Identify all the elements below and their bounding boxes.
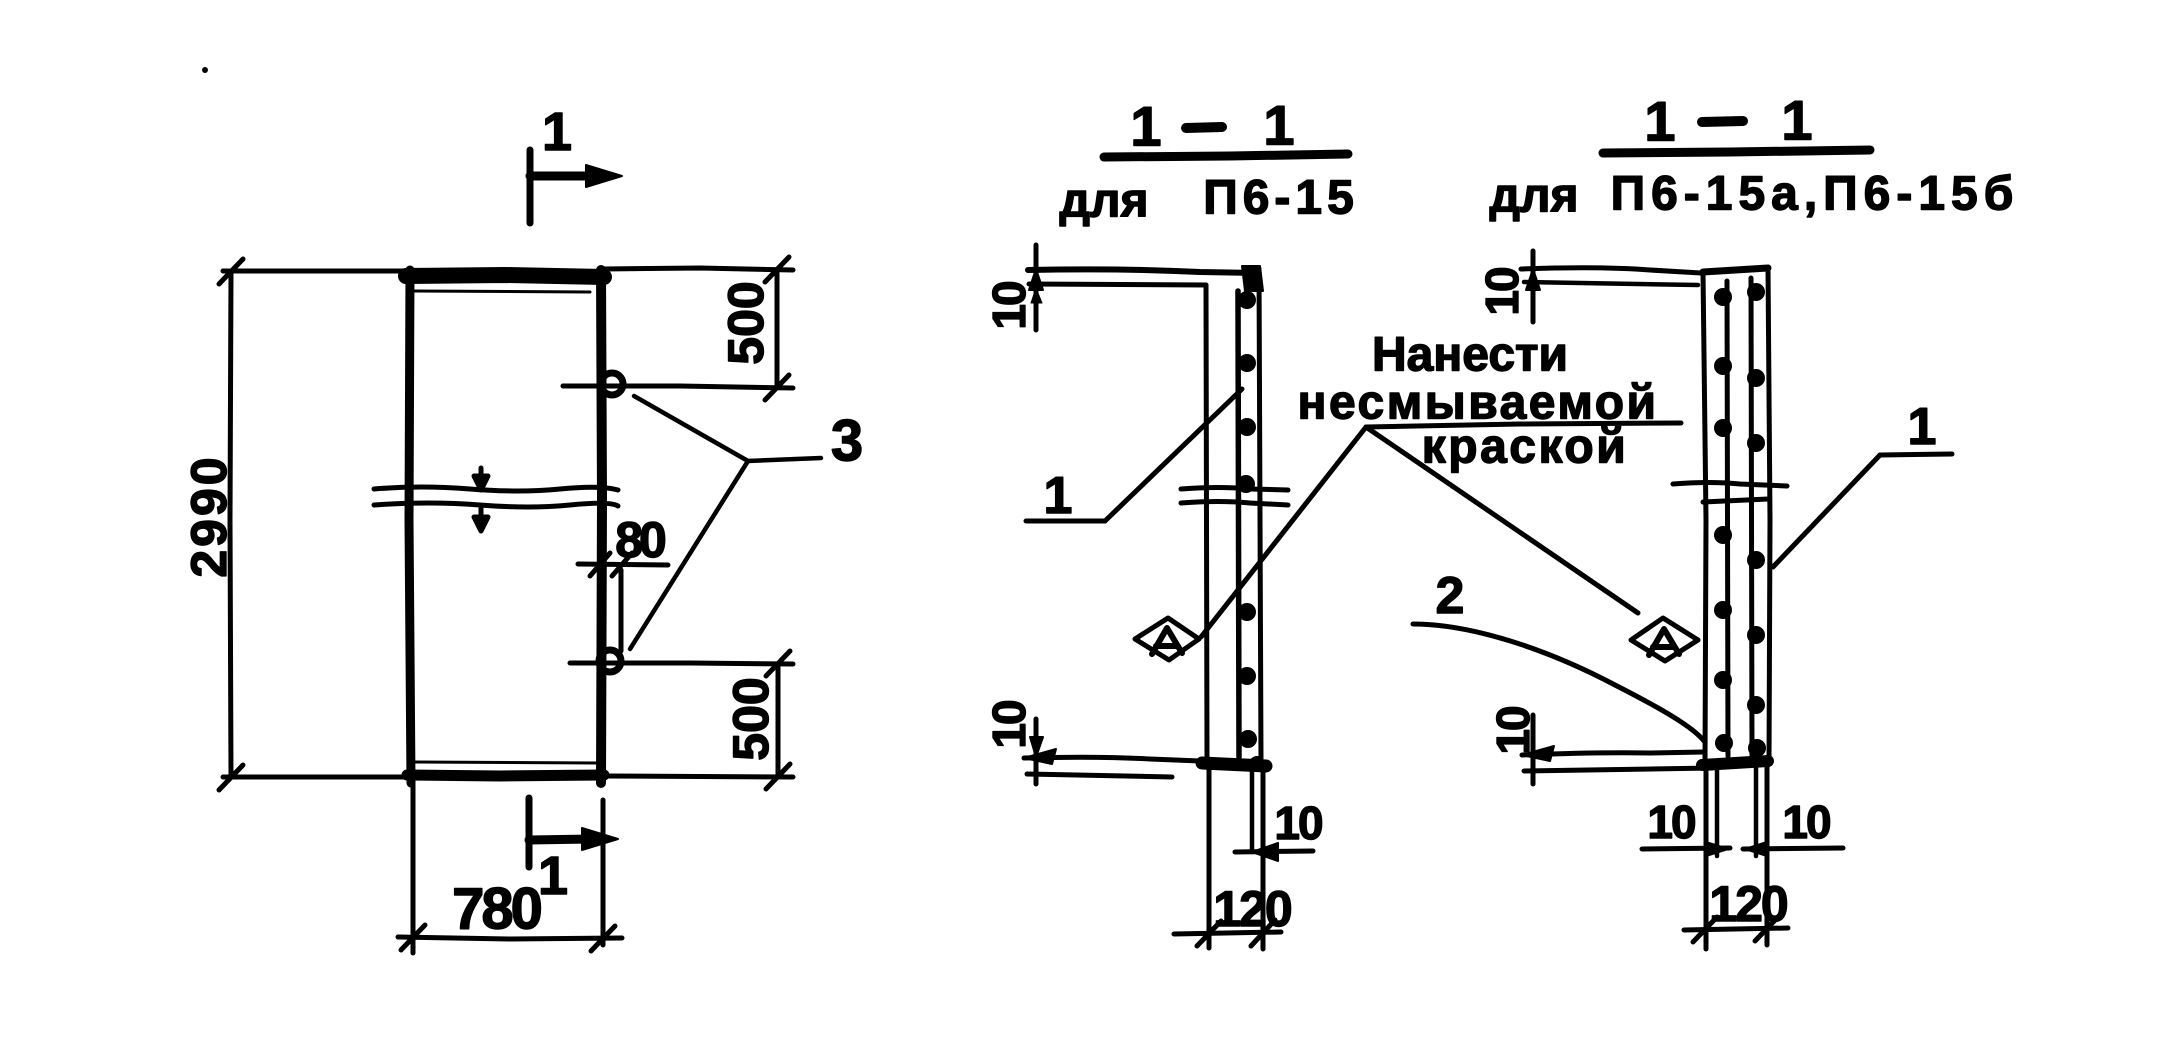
leader 1 (right): diagonal (1773, 455, 1880, 567)
svg-text:1: 1 (1644, 90, 1675, 153)
svg-text:краской: краской (1422, 421, 1628, 474)
svg-text:780: 780 (452, 877, 541, 942)
middle section: top flange top line (1028, 269, 1258, 273)
dimension 2990: tick top (219, 259, 243, 284)
dim 10 bottom right (right): dim line (1743, 848, 1843, 849)
title 1-1 (middle): underline (1104, 154, 1348, 157)
svg-text:1: 1 (1044, 467, 1073, 525)
dimension 500 bottom-right: dim line (776, 664, 781, 776)
dim 10 top (right): arrowhead (1526, 269, 1540, 290)
right section: top dim line lower (1524, 282, 1698, 285)
panel front view: top inner line (414, 291, 590, 292)
title 1-1 (right): dash (1702, 121, 1743, 122)
break line lower (left view) (374, 503, 618, 507)
weld diamond (middle): inner mark (1152, 628, 1182, 654)
middle section: bottom slab second line (1027, 774, 1172, 777)
right section: bottom extensions (1704, 770, 1709, 949)
dim 10 top-left (middle): arrowheads (1029, 269, 1043, 290)
lifting hook bottom: loop (599, 650, 621, 672)
title 1-1 (right): underline (1603, 150, 1870, 153)
dim 10 bottom-left (middle): arrowhead (1030, 737, 1043, 757)
dimension 500 top-right: tick top (765, 257, 789, 282)
dimension 500 bottom-right: tick top (766, 651, 790, 676)
stray ink speck (202, 67, 208, 73)
break arrow lower (474, 508, 488, 531)
right section: top dim line upper (1521, 268, 1701, 273)
paint note leader: underline (1366, 423, 1681, 427)
dimension 780: tick right (591, 926, 615, 951)
weld diamond (middle) (1135, 618, 1199, 660)
svg-text:10: 10 (1487, 707, 1539, 755)
middle section: web right line (1259, 269, 1261, 762)
dim 10 bottom (middle): arrowhead (1252, 843, 1278, 861)
right section: bottom foot (1702, 761, 1768, 765)
section mark bottom: arrow (529, 839, 592, 840)
middle section: bottom extension pair right (1250, 763, 1255, 852)
dimension 500 top-right: dim line (775, 270, 780, 388)
svg-text:П6-15: П6-15 (1203, 172, 1359, 225)
paint note leader: right branch to right weld mark (1366, 427, 1638, 613)
weld diamond (right) (1631, 618, 1698, 661)
svg-text:Нанести: Нанести (1372, 329, 1568, 382)
dimension 2990: dim line (230, 271, 231, 777)
break line upper (left view) (374, 487, 618, 491)
section mark bottom: tick (526, 798, 533, 867)
dimension 2990: bottom extension (223, 775, 406, 780)
dimension 500 top-right: tick bottom (765, 375, 789, 400)
dimension 500 top-right: top extension (604, 268, 793, 270)
leader 1 (middle): diagonal (1105, 389, 1242, 521)
dim 120 (middle): tick right (1251, 920, 1275, 946)
svg-text:80: 80 (615, 512, 665, 568)
panel front view: left edge (409, 270, 411, 783)
leader 3: upper branch (634, 396, 748, 461)
panel front view: bottom edge thick band (407, 775, 604, 776)
leader 3: horizontal tail (748, 458, 821, 461)
svg-text:10: 10 (1782, 796, 1830, 848)
dimension 2990: top extension (223, 269, 406, 274)
middle section: top corner blob (1242, 266, 1263, 291)
right section: web left edge (1703, 272, 1706, 762)
panel front view: right edge (601, 270, 602, 783)
svg-text:для: для (1490, 170, 1579, 223)
middle section: top flange bottom line (1029, 284, 1206, 285)
svg-text:3: 3 (831, 409, 863, 474)
dim 10 top-left (middle): tick line (1034, 245, 1039, 330)
lifting hook bottom: outer leg (619, 570, 624, 651)
right section: inner line 1 (1727, 281, 1728, 756)
dim 120 (right): tick left (1693, 917, 1717, 942)
dimension 80: tick right (612, 553, 632, 576)
panel front view: bottom inner line (414, 762, 598, 763)
svg-text:1: 1 (1130, 95, 1161, 158)
leader 2: curve (1413, 624, 1704, 741)
svg-text:10: 10 (1647, 796, 1695, 848)
leader 3: lower branch (630, 461, 748, 649)
svg-text:120: 120 (1213, 881, 1291, 937)
svg-text:500: 500 (718, 281, 774, 364)
svg-text:1: 1 (542, 102, 572, 162)
dim 10 bottom right (right): arrowhead (1745, 842, 1767, 856)
svg-text:10: 10 (1476, 268, 1528, 316)
dim 120 (right): tick right (1755, 916, 1779, 941)
dim 120 (middle): tick left (1197, 921, 1221, 946)
weld diamond (right): inner mark (1649, 629, 1679, 655)
dimension 500 bottom-right: extension through hook (570, 663, 793, 664)
dimension 780: dim line (398, 937, 622, 939)
leader 1 (right): horizontal (1880, 454, 1952, 455)
svg-text:120: 120 (1709, 876, 1787, 932)
svg-text:1: 1 (538, 846, 568, 906)
dimension 80: tick left (590, 553, 610, 576)
dimension 780: left extension (411, 783, 416, 953)
right section: top cap (1703, 268, 1768, 272)
middle section: break line upper (1181, 488, 1288, 491)
dimension 2990: tick bottom (219, 765, 243, 790)
middle section: break line lower (1181, 502, 1288, 506)
dim 10 bottom left (right): arrowhead (1706, 842, 1728, 856)
svg-text:1: 1 (1263, 94, 1294, 157)
dimension 80: dim line (578, 564, 668, 565)
svg-text:10: 10 (983, 701, 1035, 749)
svg-text:1: 1 (1908, 398, 1937, 456)
dimension 500 bottom-right: tick bottom (766, 764, 790, 789)
svg-text:2: 2 (1436, 567, 1465, 625)
paint note leader: left branch to middle weld mark (1201, 427, 1366, 637)
right section: bottom slab line with arrow (1522, 752, 1704, 755)
dim 10 bottom left (right): dim line (1642, 848, 1730, 849)
lifting hook top (601, 373, 623, 395)
dim 10 bottom (middle): dim line (1235, 851, 1313, 852)
dim 10 bottom-left (middle): tick line (1034, 719, 1039, 784)
middle section: bottom slab line with arrow (1024, 757, 1200, 761)
svg-text:1: 1 (1781, 89, 1812, 152)
svg-text:10: 10 (983, 282, 1035, 330)
right section: break line (1673, 483, 1787, 487)
break arrow upper (474, 468, 488, 490)
svg-text:2990: 2990 (181, 454, 237, 577)
svg-text:П6-15а,П6-15б: П6-15а,П6-15б (1611, 168, 2020, 221)
middle section: rebar dots (1237, 291, 1257, 748)
dim 10 bottom-left (right): tick line (1531, 715, 1536, 784)
dimension 780: tick left (401, 925, 425, 950)
middle section: bottom foot (1202, 763, 1266, 766)
right section: bottom slab second line (1524, 768, 1712, 771)
leader 1 (middle): horizontal (1026, 519, 1105, 524)
section mark top: arrow (530, 172, 596, 181)
right section: rebar dots line1 (1714, 288, 1733, 752)
dim 120 (middle): dim line (1174, 932, 1281, 934)
svg-text:для: для (1060, 175, 1149, 228)
title 1-1 (middle): dash (1186, 127, 1222, 128)
right section: rebar dots line2 (1747, 283, 1766, 757)
middle section: web left line (1206, 285, 1207, 764)
middle section: web middle line (1238, 291, 1239, 757)
panel front view: top edge thick band (406, 275, 604, 277)
right section: inner line 2 (1751, 278, 1752, 756)
svg-text:10: 10 (1274, 797, 1322, 849)
dimension 500 top-right: lower extension through hook (563, 386, 793, 388)
right section: lower web cap after break (1703, 499, 1768, 502)
dimension 780: right extension (601, 800, 606, 945)
dim 120 (right): dim line (1684, 928, 1788, 930)
dim 10 top (right): tick line (1531, 251, 1536, 322)
middle section: bottom extension left (1207, 766, 1212, 948)
dimension 500 bottom-right: bottom extension (604, 776, 793, 777)
right section: web right edge (1768, 267, 1770, 762)
section mark top: tick (527, 150, 534, 223)
svg-text:500: 500 (723, 677, 779, 760)
